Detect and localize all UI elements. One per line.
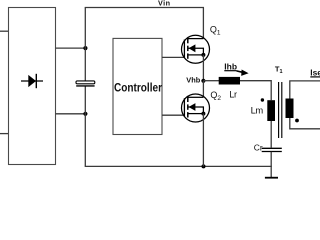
wire bulk cap lower branch (84, 86, 86, 166)
svg-text:Vin: Vin (158, 0, 171, 8)
wire primary bottom to Cr (270, 121, 272, 148)
wire rectifier positive output to bulk cap node (56, 47, 86, 49)
wire bulk cap upper branch (84, 8, 86, 82)
label Ise with underline (310, 68, 320, 78)
wire bottom rail (85, 165, 272, 167)
winding primary Lm (267, 100, 275, 121)
bridge rectifier block (9, 8, 56, 165)
controller U1 (113, 38, 162, 134)
wire Vhb to Q2 drain (202, 81, 204, 98)
wire Cr to ground (270, 152, 272, 178)
node Vhb junction dot (201, 79, 205, 83)
wire secondary bottom lead (290, 118, 320, 129)
capacitor C1 bulk (76, 81, 95, 86)
svg-text:Cr: Cr (254, 142, 263, 152)
svg-text:Controller: Controller (114, 80, 162, 94)
wire Q1 gate lead (162, 56, 184, 58)
wire Vhb to Lr (203, 80, 219, 82)
inductor Lr (219, 77, 240, 85)
svg-text:Ise: Ise (310, 68, 320, 78)
wire Q2 source to bottom rail (202, 114, 204, 167)
transformer T1 core (279, 82, 282, 138)
node secondary phase dot (295, 119, 299, 123)
node junction dot positive (83, 46, 87, 50)
svg-text:Vhb: Vhb (186, 75, 200, 84)
transistor Q2 (182, 94, 210, 122)
wire AC input line 2 (0, 133, 9, 135)
label Ihb with underline (224, 62, 237, 72)
wire Vin top rail (85, 7, 204, 9)
wire Lr to transformer primary (240, 81, 271, 101)
capacitor Cr (262, 148, 282, 151)
wire secondary top lead (290, 81, 320, 99)
node primary phase dot (261, 98, 264, 101)
arrow Ihb current direction (237, 70, 249, 76)
svg-text:Lm: Lm (251, 104, 264, 115)
node junction dot negative (83, 112, 87, 116)
wire Q1 drain from Vin rail (202, 8, 204, 39)
transistor Q1 (182, 35, 210, 63)
svg-text:Lr: Lr (229, 89, 237, 99)
wire Q2 gate lead (162, 114, 184, 116)
wire AC input line 1 (0, 30, 9, 32)
diode D1 (21, 74, 43, 88)
node bottom rail junction dot (202, 164, 206, 168)
wire Q1 source to Vhb node (202, 55, 204, 81)
wire rectifier negative output to bottom cap node (56, 113, 86, 115)
winding secondary (286, 99, 294, 119)
ground (265, 177, 278, 179)
